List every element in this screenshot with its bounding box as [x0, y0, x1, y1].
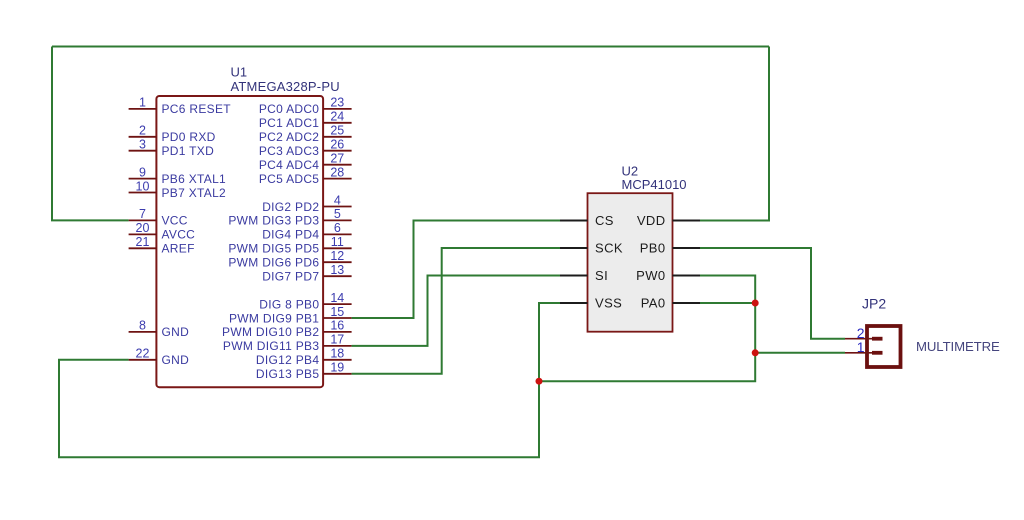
svg-text:U1: U1	[231, 65, 248, 80]
U1 pin 19 stub	[323, 361, 352, 375]
wire PB1 pin15 to U2 CS	[352, 221, 560, 319]
svg-text:11: 11	[331, 235, 344, 249]
svg-text:ATMEGA328P-PU: ATMEGA328P-PU	[231, 79, 340, 94]
svg-text:10: 10	[136, 179, 150, 193]
svg-text:18: 18	[330, 347, 344, 361]
svg-text:5: 5	[334, 207, 341, 221]
U1 pin name DIG4 PD4	[262, 228, 319, 242]
svg-text:PB0: PB0	[640, 241, 666, 256]
U1 pin 23 stub	[323, 96, 352, 110]
U1 pin 3 stub	[129, 138, 157, 152]
wire VCC net: top rail	[52, 46, 769, 48]
U1 pin 10 stub	[129, 179, 157, 193]
U1 pin 11 stub	[323, 235, 352, 249]
svg-text:VCC: VCC	[162, 214, 188, 228]
U1 pin name AVCC	[162, 228, 196, 242]
svg-text:SI: SI	[595, 268, 608, 283]
U2 pin name SI	[595, 268, 608, 283]
svg-text:PW0: PW0	[636, 268, 665, 283]
svg-text:PD0 RXD: PD0 RXD	[162, 130, 216, 144]
U1 pin name PC4 ADC4	[259, 158, 319, 172]
U1 pin 1 stub	[129, 96, 157, 110]
U2 reference designator label	[622, 164, 639, 179]
U1 pin name DIG2 PD2	[262, 200, 319, 214]
U2 right pin stub (PA0)	[673, 302, 701, 304]
U1 pin name PWM DIG10 PB2	[222, 325, 319, 339]
U1 pin name PC1 ADC1	[259, 116, 319, 130]
U1 pin name AREF	[162, 242, 195, 256]
svg-text:21: 21	[136, 235, 150, 249]
U1 pin 17 stub	[323, 333, 352, 347]
svg-text:PWM DIG10 PB2: PWM DIG10 PB2	[222, 325, 319, 339]
U1 pin name PD0 RXD	[162, 130, 216, 144]
svg-text:PC2 ADC2: PC2 ADC2	[259, 130, 319, 144]
U1 pin name PC5 ADC5	[259, 172, 319, 186]
svg-text:DIG7 PD7: DIG7 PD7	[262, 270, 319, 284]
svg-text:23: 23	[330, 96, 344, 110]
U1 pin name PB7 XTAL2	[162, 186, 227, 200]
U1 pin 16 stub	[323, 319, 352, 333]
svg-text:19: 19	[330, 361, 344, 375]
U1 pin name PC2 ADC2	[259, 130, 319, 144]
U1 pin name PWM DIG6 PD6	[228, 256, 319, 270]
U2 pin name PA0	[641, 296, 666, 311]
svg-text:PWM DIG3 PD3: PWM DIG3 PD3	[228, 214, 319, 228]
svg-text:PC0 ADC0: PC0 ADC0	[259, 102, 319, 116]
U2 left pin stub (CS)	[560, 220, 588, 222]
U1 pin 25 stub	[323, 124, 352, 138]
wire junction to JP2 pin 1	[755, 352, 845, 354]
svg-text:DIG4 PD4: DIG4 PD4	[262, 228, 319, 242]
svg-text:DIG12 PB4: DIG12 PB4	[256, 353, 319, 367]
svg-text:VSS: VSS	[595, 296, 622, 311]
U1 pin 18 stub	[323, 347, 352, 361]
U1 pin 6 stub	[323, 221, 352, 235]
U1 pin 7 stub	[129, 207, 157, 221]
JP2 reference designator label	[862, 296, 886, 312]
U1 pin name PC3 ADC3	[259, 144, 319, 158]
svg-text:PB7 XTAL2: PB7 XTAL2	[162, 186, 227, 200]
svg-text:PC3 ADC3: PC3 ADC3	[259, 144, 319, 158]
svg-text:MULTIMETRE: MULTIMETRE	[916, 339, 1000, 354]
svg-text:PWM DIG5 PD5: PWM DIG5 PD5	[228, 242, 319, 256]
wire VCC net: left vertical down to VCC pin 7	[52, 47, 129, 221]
wire PB3 pin17 to U2 SI	[352, 276, 560, 346]
junction dot at VSS tee	[536, 378, 543, 385]
U1 pin name PWM DIG3 PD3	[228, 214, 319, 228]
svg-text:12: 12	[330, 249, 344, 263]
svg-text:PC5 ADC5: PC5 ADC5	[259, 172, 319, 186]
wire U2 PA0 to junction	[700, 302, 755, 304]
svg-text:1: 1	[139, 96, 146, 110]
U1 pin 20 stub	[129, 221, 157, 235]
U1 reference designator label	[231, 65, 248, 80]
U1 pin 15 stub	[323, 305, 352, 319]
svg-text:26: 26	[330, 138, 344, 152]
U1 pin name PWM DIG11 PB3	[223, 339, 319, 353]
U2 left pin stub (VSS)	[560, 302, 588, 304]
svg-text:13: 13	[330, 263, 344, 277]
U2 left pin stub (SI)	[560, 275, 588, 277]
junction dot at JP2 pin1 tee	[752, 349, 759, 356]
svg-text:AREF: AREF	[162, 242, 195, 256]
svg-text:28: 28	[330, 165, 344, 179]
svg-text:27: 27	[330, 152, 344, 166]
wire VCC net: right vertical down to U2 VDD	[700, 47, 769, 221]
wire GND net: pin22 left and bottom rail to VSS	[59, 303, 560, 457]
svg-text:DIG13 PB5: DIG13 PB5	[256, 367, 319, 381]
U1 pin name PD1 TXD	[162, 144, 215, 158]
U1 pin 24 stub	[323, 110, 352, 124]
svg-text:25: 25	[330, 124, 344, 138]
svg-text:3: 3	[139, 138, 146, 152]
digital potentiometer U2 body (MCP41010)	[588, 193, 673, 332]
U1 pin 9 stub	[129, 165, 157, 179]
U1 pin 26 stub	[323, 138, 352, 152]
U1 pin name PC0 ADC0	[259, 102, 319, 116]
svg-text:PD1 TXD: PD1 TXD	[162, 144, 215, 158]
svg-text:2: 2	[139, 124, 146, 138]
U1 pin name GND	[162, 325, 190, 339]
U2 pin name CS	[595, 213, 614, 228]
svg-text:PB6 XTAL1: PB6 XTAL1	[162, 172, 227, 186]
svg-text:20: 20	[136, 221, 150, 235]
U1 pin name PB6 XTAL1	[162, 172, 227, 186]
U2 value label MCP41010	[622, 177, 687, 192]
svg-text:9: 9	[139, 165, 146, 179]
svg-text:PWM DIG11 PB3: PWM DIG11 PB3	[223, 339, 319, 353]
U1 pin 27 stub	[323, 152, 352, 166]
wire GND net: tee across to right vertical up to U2 PW0	[539, 276, 755, 382]
svg-text:4: 4	[334, 193, 341, 207]
U2 left pin stub (SCK)	[560, 247, 588, 249]
svg-text:PC6 RESET: PC6 RESET	[162, 102, 232, 116]
op-amp U1 body (ATMEGA328P-PU IC box)	[156, 96, 323, 387]
U2 pin name PW0	[636, 268, 665, 283]
U1 pin 8 stub	[129, 319, 157, 333]
U1 pin 28 stub	[323, 165, 352, 179]
svg-text:CS: CS	[595, 213, 614, 228]
svg-text:PC4 ADC4: PC4 ADC4	[259, 158, 319, 172]
svg-text:1: 1	[857, 339, 865, 355]
svg-text:PWM DIG6 PD6: PWM DIG6 PD6	[228, 256, 319, 270]
U1 pin 5 stub	[323, 207, 352, 221]
U1 pin name DIG12 PB4	[256, 353, 319, 367]
svg-text:GND: GND	[162, 353, 190, 367]
U2 pin name VDD	[637, 213, 666, 228]
JP2 pin 1 lead	[845, 339, 883, 355]
U1 pin name PWM DIG5 PD5	[228, 242, 319, 256]
U1 pin name DIG13 PB5	[256, 367, 319, 381]
U1 pin name PC6 RESET	[162, 102, 232, 116]
U1 pin 22 stub	[129, 347, 157, 361]
svg-text:DIG2 PD2: DIG2 PD2	[262, 200, 319, 214]
connector JP2 body	[867, 326, 901, 367]
U1 pin 2 stub	[129, 124, 157, 138]
svg-text:14: 14	[330, 291, 344, 305]
U2 right pin stub (PB0)	[673, 247, 701, 249]
U1 pin 13 stub	[323, 263, 352, 277]
U2 right pin stub (PW0)	[673, 275, 701, 277]
junction dot at PA0	[752, 300, 759, 307]
svg-text:DIG 8 PB0: DIG 8 PB0	[259, 297, 319, 311]
svg-text:JP2: JP2	[862, 296, 886, 312]
U1 pin name GND	[162, 353, 190, 367]
svg-text:8: 8	[139, 319, 146, 333]
U1 pin 12 stub	[323, 249, 352, 263]
U2 pin name PB0	[640, 241, 666, 256]
wire U2 PB0 to JP2 pin 2	[700, 248, 845, 339]
svg-text:MCP41010: MCP41010	[622, 177, 687, 192]
svg-text:VDD: VDD	[637, 213, 666, 228]
svg-text:PWM DIG9 PB1: PWM DIG9 PB1	[229, 311, 319, 325]
svg-text:SCK: SCK	[595, 241, 623, 256]
JP2 value label MULTIMETRE	[916, 339, 1000, 354]
svg-text:GND: GND	[162, 325, 190, 339]
svg-text:17: 17	[330, 333, 344, 347]
U1 pin 4 stub	[323, 193, 352, 207]
U1 pin name PWM DIG9 PB1	[229, 311, 319, 325]
U1 pin 21 stub	[129, 235, 157, 249]
JP2 pin 2 lead	[845, 325, 883, 341]
svg-text:22: 22	[136, 347, 150, 361]
svg-text:7: 7	[139, 207, 146, 221]
U1 pin name DIG7 PD7	[262, 270, 319, 284]
U1 pin name DIG 8 PB0	[259, 297, 319, 311]
svg-text:16: 16	[330, 319, 344, 333]
svg-text:AVCC: AVCC	[162, 228, 196, 242]
U1 value label ATMEGA328P-PU	[231, 79, 340, 94]
U2 right pin stub (VDD)	[673, 220, 701, 222]
svg-text:PC1 ADC1: PC1 ADC1	[259, 116, 319, 130]
svg-text:24: 24	[330, 110, 344, 124]
U2 pin name SCK	[595, 241, 623, 256]
wire PB5 pin19 to U2 SCK	[352, 248, 560, 374]
svg-text:PA0: PA0	[641, 296, 666, 311]
svg-text:15: 15	[330, 305, 344, 319]
U1 pin 14 stub	[323, 291, 352, 305]
svg-text:6: 6	[334, 221, 341, 235]
U2 pin name VSS	[595, 296, 622, 311]
U1 pin name VCC	[162, 214, 188, 228]
